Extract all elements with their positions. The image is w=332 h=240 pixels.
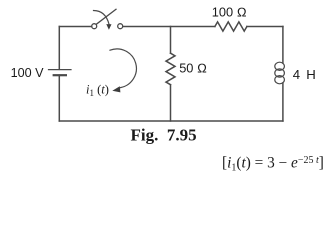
svg-text:i1 (t): i1 (t) xyxy=(86,83,109,99)
wire right vertical bottom segment xyxy=(282,83,284,121)
current arrow arc i1 xyxy=(110,49,136,88)
inductor L 4H coil loop 2 xyxy=(275,69,285,77)
wire top segment from source to switch xyxy=(59,26,91,28)
inductor L 4H coil loop 1 xyxy=(275,62,285,70)
wire left vertical bottom segment xyxy=(58,75,60,121)
svg-text:[i1(t) = 3 − e−25 t]: [i1(t) = 3 − e−25 t] xyxy=(222,155,324,174)
wire right vertical top segment xyxy=(282,27,284,64)
switch left contact circle xyxy=(92,24,97,29)
wire top segment resistor to right corner xyxy=(247,26,283,28)
svg-text:50 Ω: 50 Ω xyxy=(179,60,207,75)
wire top segment from switch to resistor xyxy=(123,26,215,28)
switch right contact circle xyxy=(118,24,123,29)
inductor L 4H coil loop 3 xyxy=(275,76,285,84)
wire middle branch bottom xyxy=(170,85,172,121)
battery V1 long plate xyxy=(49,69,72,71)
svg-text:Fig. 7.95: Fig. 7.95 xyxy=(131,125,197,144)
switch arrowhead xyxy=(106,24,111,30)
resistor R 50ohm vertical zigzag xyxy=(166,53,175,85)
wire middle branch top xyxy=(170,27,172,54)
battery V1 short plate xyxy=(54,74,66,76)
svg-text:100 V: 100 V xyxy=(11,66,45,80)
wire left vertical top segment xyxy=(58,27,60,70)
resistor R 100ohm zigzag xyxy=(215,22,247,31)
wire bottom horizontal xyxy=(59,120,283,122)
current arrowhead xyxy=(112,86,120,92)
svg-text:4 H: 4 H xyxy=(293,67,317,82)
switch blade xyxy=(96,9,116,24)
switch closing arrow arc xyxy=(94,11,110,25)
svg-text:100 Ω: 100 Ω xyxy=(212,5,247,20)
